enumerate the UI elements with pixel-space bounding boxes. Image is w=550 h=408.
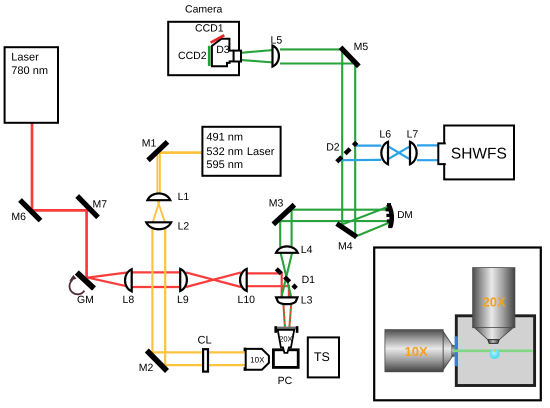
mirror M6 [20,200,41,221]
inset blue window [455,336,458,366]
wire yellow beam M2 to 10X objective b [164,364,246,366]
svg-text:532 nm: 532 nm [206,146,243,158]
wire blue beam D2 to L6 top [355,145,381,147]
svg-text:L1: L1 [178,191,190,203]
svg-text:TS: TS [314,350,330,364]
wire yellow beam L1 to L2 crossing a [157,200,165,223]
wire yellow beam L2 down to M2 b [164,229,166,366]
wire green beam L5 to M5 top [280,48,343,50]
wire green beam M3 down to L4 b [291,206,293,247]
svg-text:D2: D2 [326,142,340,154]
lens L8 [125,269,132,291]
inset 20X objective tip [488,340,499,344]
mirror M2 [147,351,167,372]
inset 10X objective cone [443,331,452,370]
svg-text:CCD2: CCD2 [178,50,207,62]
wire green beam M5 down through D2 to M4 left [341,48,343,228]
wire red beam D1 down to L3 a [281,272,283,298]
wire red beam L3 to objective a [283,304,285,327]
mirror M7 [77,196,98,217]
svg-text:M1: M1 [142,137,157,149]
lens L5 [273,46,279,67]
mirror M5 [341,47,359,66]
wire green beam M4 to DM b [355,222,392,237]
lens L1 [147,193,170,200]
wire green beam L4 to L3 crossing b [281,252,292,299]
lens L10 [240,269,247,291]
TS box translation stage [308,337,339,377]
wire green beam camera to L5 bottom [241,60,274,63]
wire green beam M5 down through D2 to M4 right [354,62,356,236]
wire red beam L9 to L10 crossing a [186,272,241,287]
svg-text:10X: 10X [250,355,265,364]
wire red beam L8 to L9 top [132,271,181,273]
wire red beam M6 to M7 [31,209,89,212]
wire red beam L8 to L9 bottom [132,286,181,288]
svg-text:L3: L3 [301,294,313,306]
wire green beam camera to L5 top [241,50,274,53]
svg-text:20X: 20X [279,334,292,343]
wire yellow beam M2 to 10X objective a [151,351,245,353]
dichroic D3 red line [211,35,225,42]
wire red beam L10 to D1 top [246,272,283,274]
inset sample chamber [456,316,534,386]
CCD2 green sensor line [208,46,211,66]
wire green beam M3 down to L4 a [279,217,281,247]
svg-text:20X: 20X [483,294,506,309]
rotation arrow at GM [70,280,85,294]
deformable mirror DM arc [388,204,391,227]
lens L7 [410,142,417,165]
svg-text:M5: M5 [354,41,369,53]
inset green beam [453,349,533,352]
svg-text:CCD1: CCD1 [195,22,224,34]
svg-text:L8: L8 [123,294,135,306]
wire red beam laser780 down to M6 [31,123,34,212]
DM actuator teeth [386,208,390,211]
laser box 780 nm [5,47,58,123]
lens L3 [276,297,297,304]
10X objective [244,348,247,352]
mirror M4 [337,224,357,238]
wire green beam L4 to L3 crossing a [280,252,291,299]
camera outer box [168,22,239,75]
PC box sample chamber [273,350,298,368]
svg-text:L5: L5 [271,34,283,46]
svg-text:L6: L6 [379,129,391,141]
wire red beam M7 down to GM [85,209,88,279]
wire yellow beam laser box to M1 [158,151,203,154]
wire red beam L3 to objective b [289,304,291,327]
inset 20X objective cylinder [473,268,515,328]
svg-text:M3: M3 [269,197,284,209]
wire yellow beam M1 down to L1 a [156,152,158,194]
wire green beam DM to M3 b [276,220,390,222]
svg-text:L7: L7 [407,129,419,141]
camera snout [234,51,241,62]
svg-text:780 nm: 780 nm [11,65,48,77]
wire green dashed overlay on objective beam a [283,304,285,327]
lens L6 [381,142,388,165]
wire blue beam L7 to SHWFS bottom [417,159,439,161]
inset 10X objective cylinder [385,330,443,372]
svg-text:M4: M4 [338,240,353,252]
galvo mirror GM [77,273,94,289]
svg-text:DM: DM [397,210,413,221]
inset 10X objective tip [452,344,455,357]
wire yellow beam L1 to L2 crossing b [153,200,160,223]
dichroic D1 dashed [276,269,296,289]
lens L9 [180,269,187,291]
svg-text:Laser: Laser [11,52,39,64]
wire yellow beam L2 down to M2 a [151,229,153,354]
svg-text:L10: L10 [238,294,256,306]
svg-text:491 nm: 491 nm [206,132,243,144]
20X objective top bar [275,327,299,330]
wire red beam GM to L8 bottom [88,278,132,288]
wire red beam D1 down to L3 b [288,285,290,298]
svg-text:PC: PC [278,375,293,387]
multiline laser box 491/532/595 nm [202,127,280,176]
wire blue beam L7 to SHWFS top [417,144,439,146]
svg-text:D1: D1 [302,274,316,286]
svg-text:CL: CL [198,334,212,346]
SHWFS box [444,126,514,180]
wire red beam L10 to D1 bottom [246,285,290,287]
wire red beam GM to L8 top [88,272,132,278]
20X objective body [278,330,295,353]
wire green beam L5 to M5 bottom [280,62,356,64]
wire red beam L9 to L10 crossing b [186,272,241,287]
dichroic D2 dashed [337,142,357,162]
SHWFS input tab [438,143,446,164]
wire blue beam D2 to L6 bottom [340,159,381,162]
mirror M1 [148,142,168,160]
mirror M3 [273,205,294,225]
wire green beam M4 to DM a [342,206,390,224]
camera body polygon [212,39,234,66]
svg-text:L4: L4 [301,244,313,256]
cylindrical lens CL [203,349,208,371]
wire blue beam L6 to L7 crossing b [387,146,411,160]
lens L2 [146,222,171,229]
svg-text:GM: GM [77,294,94,306]
lens L4 [276,246,298,252]
svg-text:M7: M7 [93,199,108,211]
svg-text:L9: L9 [177,294,189,306]
svg-text:SHWFS: SHWFS [451,145,507,162]
inset sample sphere [490,349,500,359]
svg-text:L2: L2 [178,220,190,232]
svg-text:M2: M2 [139,362,154,374]
wire green beam DM to M3 a [288,209,389,211]
wire yellow beam M1 down to L1 b [159,153,161,194]
inset 20X objective cone [474,328,513,340]
svg-text:10X: 10X [405,344,428,359]
svg-text:595 nm: 595 nm [206,159,243,171]
svg-text:Camera: Camera [185,4,223,16]
wire blue beam L6 to L7 crossing a [387,146,411,160]
inset outer box [374,248,541,401]
svg-text:Laser: Laser [247,146,275,158]
wire green dashed overlay on objective beam b [289,304,291,327]
svg-text:D3: D3 [216,44,230,56]
svg-text:M6: M6 [11,211,26,223]
